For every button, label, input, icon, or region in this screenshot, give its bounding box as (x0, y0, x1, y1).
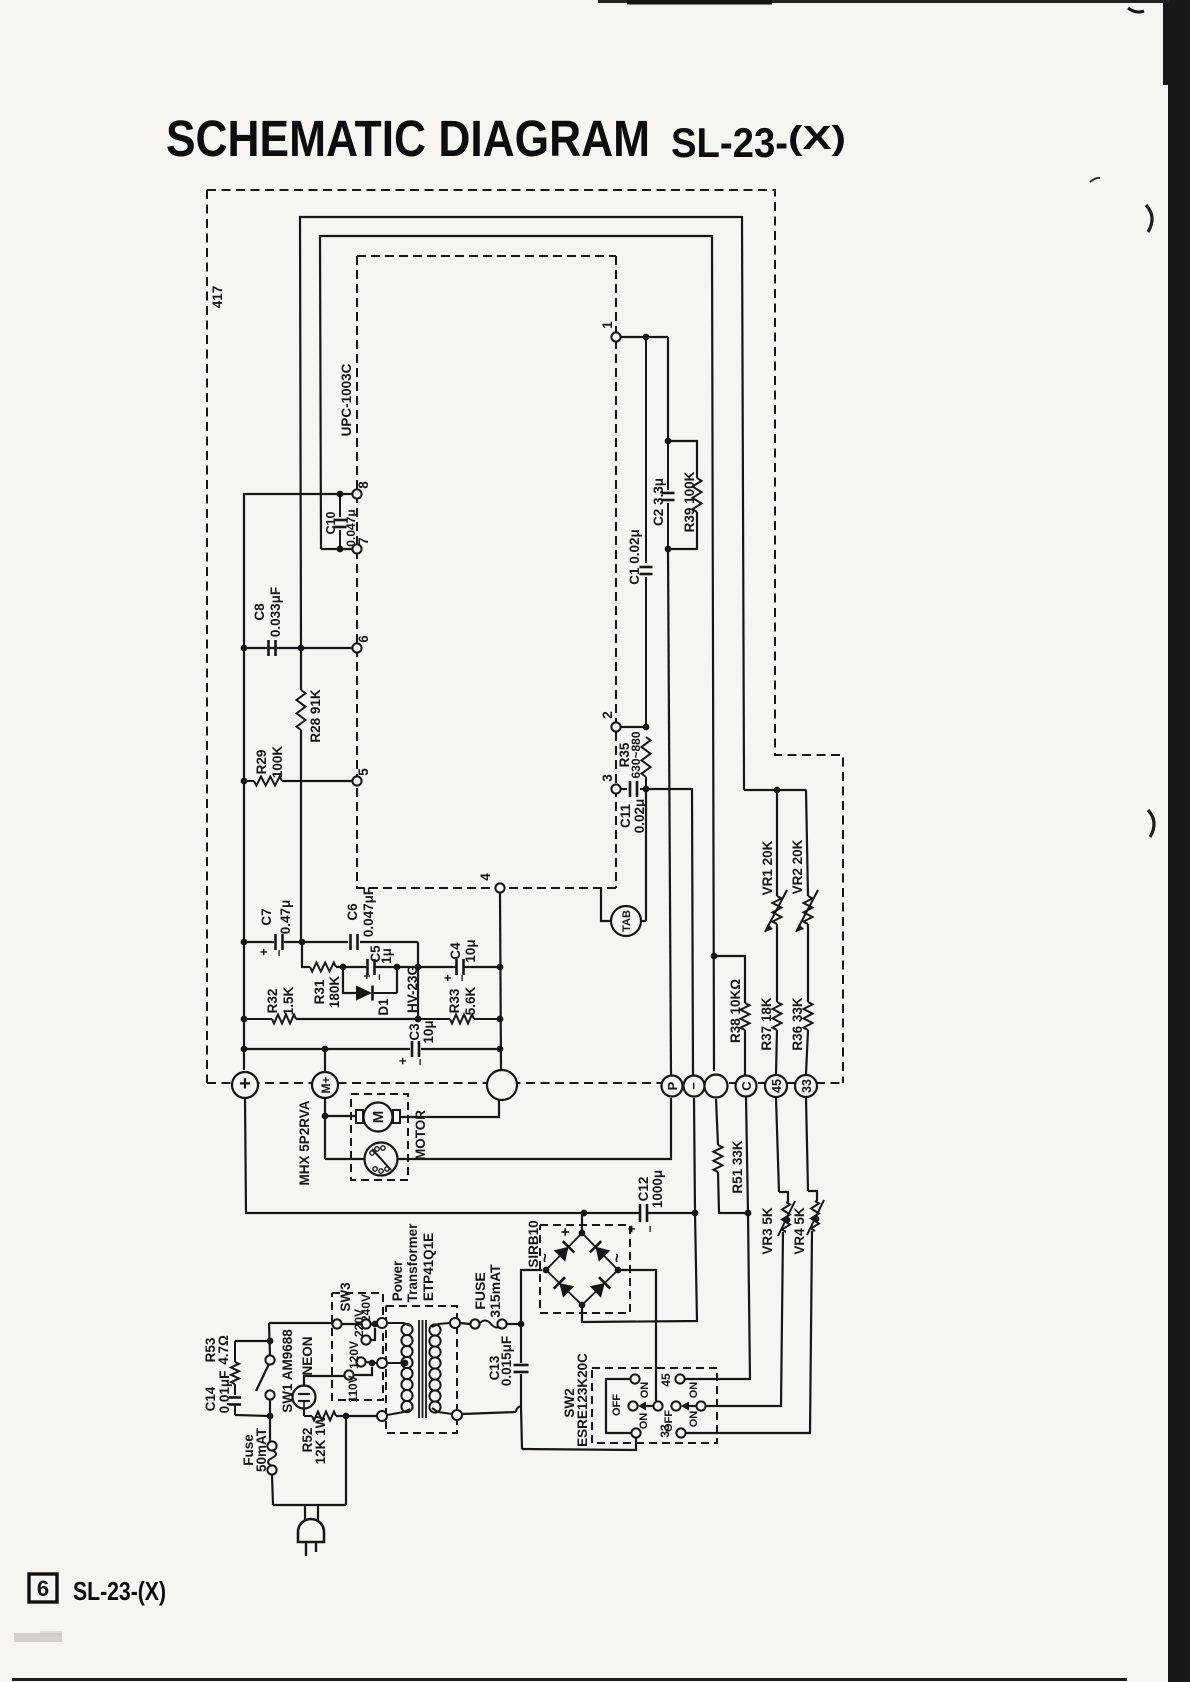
pin 7 (352, 537, 371, 553)
terminal TAB (611, 906, 641, 936)
capacitor C11 (630, 781, 646, 797)
wire C11 to minus terminal (646, 789, 693, 1075)
svg-text:33: 33 (800, 1079, 814, 1093)
transformer core (419, 1320, 426, 1418)
transformer primary coil (387, 1323, 413, 1415)
svg-text:−: − (374, 974, 386, 980)
svg-text:MHX 5P2RVA: MHX 5P2RVA (297, 1100, 312, 1185)
label bridge ac right (609, 1253, 626, 1262)
resistor R32 (244, 1015, 296, 1024)
wire pin6 net (241, 645, 352, 652)
svg-text:R39 100K: R39 100K (682, 471, 697, 532)
svg-text:315mAT: 315mAT (487, 1264, 503, 1318)
label R29 (254, 746, 285, 779)
wire M+ drop (322, 1049, 329, 1159)
pin 5 (352, 768, 371, 786)
SW3 terminal entry (332, 1319, 341, 1328)
SW2 sec2 pole (681, 1401, 706, 1410)
svg-text:C12: C12 (636, 1177, 651, 1202)
resistor R37 (773, 1002, 782, 1074)
svg-text:C: C (739, 1081, 754, 1091)
label C8 (252, 587, 283, 637)
terminal blank big (487, 1070, 517, 1100)
transformer primary pin top (377, 1318, 387, 1328)
wire C terminal drop (685, 1097, 751, 1379)
svg-text:45: 45 (770, 1079, 784, 1093)
svg-text:~: ~ (609, 1253, 626, 1262)
wire R52 down (345, 1416, 347, 1505)
svg-text:5.6K: 5.6K (463, 986, 478, 1015)
svg-text:−: − (686, 1082, 701, 1090)
footer page box (29, 1574, 57, 1602)
svg-text:−: − (643, 1225, 657, 1232)
wire rowC mid (296, 1018, 418, 1020)
transformer primary pin tap (377, 1358, 408, 1368)
svg-text:1.5K: 1.5K (281, 986, 296, 1015)
svg-text:100K: 100K (270, 746, 285, 779)
svg-text:R36 33K: R36 33K (790, 997, 805, 1051)
svg-text:+: + (557, 1227, 574, 1236)
capacitor C2 (662, 441, 675, 552)
terminal 45 (765, 1075, 787, 1097)
svg-text:8: 8 (356, 481, 371, 489)
motor M (325, 1103, 400, 1132)
bridge diode bottom-right (582, 1270, 618, 1305)
motor dashed box (351, 1094, 408, 1180)
transformer T1 dashed box (386, 1306, 457, 1433)
label R39 (682, 471, 697, 532)
SW3 terminal 120V (347, 1341, 377, 1369)
mains plug (298, 1505, 324, 1556)
SW2 sec2 labels (663, 1382, 700, 1432)
SW2 sec1 labels (611, 1382, 651, 1430)
potentiometer VR4 (686, 1098, 824, 1433)
SW2 sec1 contact on-top (630, 1374, 639, 1383)
SW2 sec2 contact 33 (658, 1424, 686, 1438)
diode D1 branch (343, 967, 397, 993)
wire VR branch (744, 785, 806, 793)
svg-text:R28 91K: R28 91K (308, 689, 323, 743)
svg-text:SL-23-: SL-23- (671, 119, 788, 166)
svg-text:ON: ON (688, 1411, 700, 1428)
neon lamp (293, 1376, 346, 1409)
capacitor C3 (412, 1041, 419, 1057)
svg-text:ON: ON (639, 1382, 651, 1399)
label VR3 (760, 1207, 775, 1255)
SW3 terminal 220V (352, 1309, 375, 1345)
transformer secondary coil (429, 1323, 452, 1414)
wire R31 lead (302, 942, 307, 967)
svg-text:1000μ: 1000μ (650, 1170, 665, 1208)
SW2 sec2 contact off (671, 1401, 680, 1410)
IC U1 UPC-1003C dashed box (357, 256, 616, 888)
svg-text:C2 3.3μ: C2 3.3μ (651, 478, 666, 526)
resistor R31 (307, 963, 336, 972)
svg-text:ON: ON (638, 1413, 650, 1430)
label SW1 (280, 1329, 295, 1413)
capacitor C6 (351, 934, 358, 950)
svg-text:VR1 20K: VR1 20K (760, 840, 775, 895)
label C6 (345, 887, 376, 937)
label R38 (728, 979, 743, 1043)
wire mains top (269, 1321, 378, 1328)
wire rowB right (418, 964, 503, 971)
label C12 (624, 1170, 665, 1233)
wire bridge right AC (618, 1270, 656, 1401)
resistor R51 (714, 1099, 747, 1213)
svg-text:+: + (395, 1057, 410, 1065)
label MOTOR (413, 1110, 428, 1160)
potentiometer VR2 (796, 790, 818, 1002)
svg-text:C14: C14 (203, 1386, 218, 1411)
wire rowC left (241, 1016, 248, 1023)
svg-text:+: + (256, 948, 271, 956)
capacitor C1 (640, 337, 653, 727)
pin 6 (352, 635, 371, 653)
label R36 (790, 997, 805, 1051)
resistor R52 (304, 1408, 377, 1421)
svg-text:+: + (360, 972, 374, 979)
label Power Transformer ETP41Q1E (390, 1223, 436, 1303)
SW2 dashed box (592, 1368, 717, 1443)
svg-text:180K: 180K (327, 976, 342, 1009)
svg-text:120V: 120V (347, 1341, 361, 1369)
svg-text:50mAT: 50mAT (254, 1427, 269, 1472)
terminal blank2 (705, 1075, 728, 1098)
SW2 sec2 contact 45 (659, 1373, 685, 1387)
wire pin8 net (244, 491, 352, 1070)
svg-text:R29: R29 (254, 750, 269, 775)
SW2 sec1 tie wire (606, 1379, 631, 1433)
svg-text:~: ~ (537, 1253, 554, 1262)
svg-text:SW3: SW3 (338, 1282, 353, 1312)
svg-text:ESRE123K20C: ESRE123K20C (575, 1353, 590, 1447)
label R32 (265, 986, 296, 1015)
transformer primary pin bottom (377, 1411, 387, 1421)
capacitor C7 (276, 934, 283, 950)
svg-text:SCHEMATIC DIAGRAM: SCHEMATIC DIAGRAM (166, 110, 650, 167)
label bridge ac left (537, 1253, 554, 1262)
fuse 50mAT (267, 1441, 276, 1505)
svg-text:7: 7 (356, 537, 371, 545)
terminal C (736, 1076, 757, 1097)
svg-text:0.01μF: 0.01μF (217, 1371, 232, 1414)
terminal plus (232, 1072, 258, 1098)
svg-text:P: P (665, 1081, 680, 1090)
label C10 (324, 509, 358, 546)
motor governor (325, 1143, 398, 1176)
wire plus to C12 (245, 1098, 587, 1216)
svg-text:ETP41Q1E: ETP41Q1E (421, 1233, 436, 1301)
svg-text:ON: ON (688, 1382, 700, 1399)
bridge diode top-right (582, 1233, 618, 1270)
resistor R39 (668, 441, 702, 549)
svg-text:0.47μ: 0.47μ (278, 900, 293, 935)
resistor R28 (297, 648, 306, 942)
bridge nodes (543, 1230, 622, 1309)
svg-text:VR3 5K: VR3 5K (760, 1207, 775, 1255)
svg-text:C11: C11 (618, 804, 633, 829)
svg-text:0.02μ: 0.02μ (632, 799, 647, 834)
svg-text:R37 18K: R37 18K (759, 997, 774, 1051)
svg-text:110V: 110V (346, 1375, 360, 1402)
svg-text:R31: R31 (312, 979, 327, 1004)
svg-text:0.047μF: 0.047μF (361, 887, 376, 937)
fuse FUSE 315mAT (460, 1319, 524, 1328)
svg-text:4: 4 (478, 873, 493, 881)
SW2 sec1 contact off (628, 1401, 637, 1410)
label C3 (395, 1020, 436, 1065)
SW3 dashed box (332, 1293, 383, 1400)
wire pin1 net (621, 334, 668, 341)
label MHX 5P2RVA (297, 1100, 312, 1185)
wire pin7 stub (321, 548, 352, 550)
svg-text:3: 3 (600, 774, 615, 782)
svg-text:HV-23G: HV-23G (405, 965, 420, 1013)
label HV-23G (405, 965, 420, 1013)
wire pin2 stub (621, 724, 649, 731)
label 417 (210, 286, 225, 309)
terminal M plus (312, 1072, 338, 1098)
label C5 (360, 945, 394, 980)
wire row C7C6 (241, 939, 418, 946)
switch SW1 (256, 1323, 275, 1441)
svg-text:C6: C6 (345, 903, 360, 921)
svg-text:630~880: 630~880 (629, 731, 643, 778)
svg-text:C7: C7 (259, 908, 274, 925)
pin 2 (600, 711, 621, 731)
svg-text:NEON: NEON (300, 1336, 315, 1375)
svg-text:+: + (239, 1073, 251, 1095)
svg-text:−: − (272, 949, 286, 956)
svg-text:C4: C4 (448, 942, 463, 960)
svg-text:MOTOR: MOTOR (413, 1110, 428, 1160)
svg-text:M: M (370, 1111, 387, 1124)
svg-text:0.015μF: 0.015μF (499, 1336, 514, 1386)
wire TAB right (641, 906, 646, 921)
diode D1 (356, 986, 390, 1001)
SW2 sec1 pole (638, 1401, 663, 1410)
terminal 33 (795, 1075, 817, 1097)
resistor R33 (418, 1015, 503, 1024)
svg-text:Transformer: Transformer (405, 1223, 420, 1303)
svg-text:C3: C3 (407, 1023, 422, 1041)
pin 1 (600, 321, 621, 342)
label VR4 (792, 1207, 807, 1255)
svg-text:M+: M+ (319, 1076, 333, 1093)
label C11 (618, 799, 647, 834)
svg-text:10μ: 10μ (421, 1020, 436, 1043)
svg-text:D1: D1 (376, 998, 391, 1016)
label C14 (203, 1371, 232, 1414)
svg-text:10μ: 10μ (463, 939, 478, 962)
svg-text:R51 33K: R51 33K (730, 1140, 745, 1194)
label NEON (300, 1336, 315, 1375)
svg-text:417: 417 (210, 286, 225, 309)
svg-text:R33: R33 (447, 988, 462, 1013)
wire pin5 net (241, 778, 352, 785)
resistor R35 (642, 737, 651, 792)
svg-text:12K 1W: 12K 1W (313, 1415, 328, 1464)
pin 8 (352, 481, 371, 499)
svg-text:C1 0.02μ: C1 0.02μ (627, 529, 642, 585)
svg-text:+: + (440, 974, 455, 982)
wire pin4 column (500, 893, 501, 1069)
wire C2R39 from pin1 (665, 337, 672, 444)
svg-text:Power: Power (390, 1260, 405, 1301)
svg-text:R32: R32 (265, 989, 280, 1014)
label D1 (376, 998, 391, 1016)
label R31 (312, 976, 342, 1009)
label C2 (651, 478, 666, 526)
label VR2 (790, 839, 805, 894)
label C7 (256, 900, 293, 957)
wire P column (668, 549, 671, 1075)
label VR1 (760, 840, 775, 895)
resistor R36 (804, 1002, 813, 1074)
resistor R29 (244, 777, 282, 786)
wire fuse to bridge left (521, 1270, 542, 1324)
svg-text:1: 1 (600, 321, 615, 329)
label R53 (203, 1335, 231, 1365)
svg-text:−: − (455, 974, 469, 981)
label SIRB10 (526, 1220, 541, 1267)
wire minus column low (582, 1098, 698, 1322)
label SW2 (562, 1353, 590, 1447)
wire rowA right drop (415, 942, 422, 1022)
svg-text:+: + (624, 1225, 639, 1233)
terminal P (662, 1076, 683, 1097)
svg-text:0.033μF: 0.033μF (268, 587, 283, 637)
pin 3 (600, 774, 621, 794)
capacitor C5 (368, 959, 375, 975)
wire governor to P (397, 1098, 671, 1159)
wire R38 branch (711, 953, 745, 1003)
svg-text:6: 6 (37, 1576, 49, 1601)
bridge diode bottom-left (546, 1270, 582, 1305)
footer SL-23-(X) (73, 1576, 166, 1606)
potentiometer VR3 (706, 1098, 795, 1406)
wire bottom mains (273, 1504, 346, 1506)
svg-text:1μ: 1μ (379, 948, 394, 964)
resistor R38 (741, 1003, 750, 1075)
label C4 (440, 939, 478, 981)
label R33 (447, 986, 478, 1015)
svg-text:R38 10KΩ: R38 10KΩ (728, 979, 743, 1043)
svg-text:OFF: OFF (663, 1410, 675, 1432)
wire bridge top to C12row (581, 1213, 583, 1233)
svg-text:C8: C8 (252, 603, 267, 621)
wire box2 loop (320, 236, 714, 1071)
transformer secondary pin top (450, 1318, 460, 1328)
capacitor C14 (229, 1398, 270, 1417)
outer dashed enclosure 417 (207, 190, 843, 1083)
svg-text:2: 2 (600, 711, 615, 719)
label R37 (759, 997, 774, 1051)
svg-text:(X): (X) (788, 119, 846, 156)
svg-text:SL-23-(X): SL-23-(X) (73, 1576, 166, 1606)
svg-text:5: 5 (356, 768, 371, 776)
label FUSE 315mAT (472, 1264, 503, 1318)
capacitor C10 (334, 494, 347, 552)
label C1 (627, 529, 642, 585)
svg-text:220V: 220V (352, 1309, 366, 1337)
svg-text:UPC-1003C: UPC-1003C (339, 363, 354, 436)
svg-text:FUSE: FUSE (472, 1272, 488, 1309)
transformer secondary pin bottom (452, 1410, 462, 1420)
label bridge plus (557, 1227, 574, 1236)
svg-text:TAB: TAB (621, 910, 633, 932)
capacitor C12 (584, 1204, 695, 1222)
wire motor to blank (400, 1100, 499, 1117)
title SCHEMATIC DIAGRAM (166, 110, 650, 167)
potentiometer VR1 (765, 790, 787, 1002)
SW3 terminal 240V (359, 1294, 373, 1329)
svg-text:4.7Ω: 4.7Ω (216, 1335, 231, 1365)
wire C13 hop to SW2 (521, 1407, 636, 1450)
label UPC-1003C (339, 363, 354, 436)
pin 4 (478, 873, 505, 893)
SW3 terminal 110V (344, 1367, 372, 1403)
wire box1 top loop (300, 217, 744, 785)
svg-text:6: 6 (356, 635, 371, 643)
svg-text:C10: C10 (324, 511, 338, 534)
label Fuse 50mAT (241, 1427, 269, 1472)
wire rowD (241, 1046, 504, 1053)
label R35 (617, 731, 643, 778)
wire TAB left (601, 888, 611, 921)
svg-text:OFF: OFF (611, 1394, 623, 1416)
svg-text:−: − (413, 1058, 427, 1065)
label C13 (487, 1336, 514, 1386)
wire TAB drop (645, 789, 647, 906)
svg-text:VR2 20K: VR2 20K (790, 839, 805, 894)
capacitor C8 (244, 640, 301, 656)
resistor R53 (231, 1341, 239, 1395)
capacitor C4 (457, 959, 464, 975)
label R52 (300, 1415, 328, 1464)
wire R53 branch top (235, 1338, 273, 1345)
label SW3 (338, 1282, 353, 1312)
wire pin3 stub (621, 788, 627, 790)
svg-text:45: 45 (659, 1373, 673, 1387)
svg-text:VR4 5K: VR4 5K (792, 1207, 807, 1255)
bridge SIRB10 dashed box (540, 1225, 630, 1313)
capacitor C13 (514, 1324, 529, 1407)
svg-text:0.047μ: 0.047μ (344, 509, 358, 546)
label R28 (308, 689, 323, 743)
terminal minus (684, 1076, 705, 1097)
bridge diode top-left (546, 1233, 582, 1270)
SW2 sec1 contact on-bottom (631, 1428, 640, 1437)
wire secondary bottom (462, 1406, 522, 1414)
title SL-23-(X) (671, 119, 846, 166)
label R51 (730, 1140, 745, 1194)
wire rowB (336, 964, 418, 971)
